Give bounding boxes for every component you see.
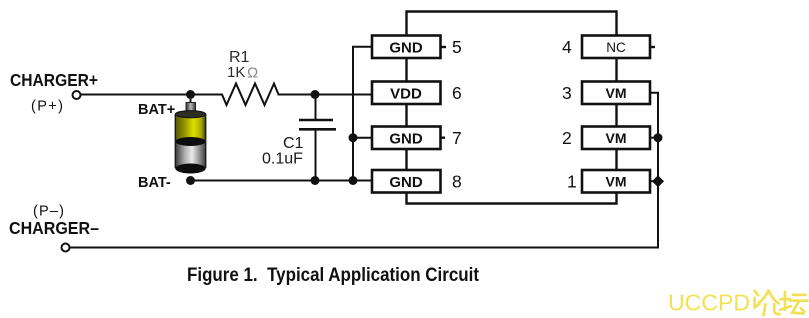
svg-text:VM: VM	[606, 85, 627, 101]
svg-text:6: 6	[452, 83, 462, 103]
pin 8 GND box	[372, 170, 441, 193]
svg-text:GND: GND	[389, 40, 423, 57]
node bus-VM1 junction (diamond)	[652, 175, 664, 187]
svg-text:UCCPD: UCCPD	[668, 290, 750, 316]
wire R1 to VDD	[281, 94, 372, 96]
wire VM2 stub	[650, 137, 658, 139]
node battery bottom junction	[186, 176, 195, 185]
pin 5 GND box	[372, 36, 446, 59]
pin 1 VM box	[582, 170, 650, 193]
wire BAT- to GND8	[191, 180, 373, 182]
wire IC package bottom edge	[407, 193, 617, 204]
svg-text:7: 7	[452, 128, 462, 148]
svg-text:CHARGER–: CHARGER–	[9, 218, 99, 238]
wire IC package top edge	[407, 12, 617, 36]
wire left pin chain stubs	[405, 58, 407, 171]
wire VM right bus	[70, 93, 659, 248]
svg-text:8: 8	[452, 172, 462, 192]
svg-text:VM: VM	[606, 174, 627, 190]
pin 4 NC box	[582, 36, 655, 59]
svg-text:NC: NC	[606, 40, 626, 55]
svg-text:0.1uF: 0.1uF	[262, 151, 303, 168]
svg-text:BAT-: BAT-	[138, 175, 171, 191]
watermark UCCPD forum	[668, 290, 808, 316]
wire right pin chain stubs	[615, 58, 617, 171]
terminal CHARGER+	[73, 91, 81, 99]
capacitor C1	[299, 95, 336, 181]
svg-text:2: 2	[562, 128, 572, 148]
battery BT1	[175, 95, 205, 174]
svg-text:5: 5	[452, 37, 462, 57]
svg-text:GND: GND	[389, 131, 423, 148]
node battery top junction	[186, 90, 195, 99]
svg-text:GND: GND	[389, 174, 423, 191]
terminal CHARGER-	[62, 244, 70, 252]
wire left GND bus	[353, 47, 372, 181]
svg-text:Ω: Ω	[247, 65, 258, 82]
node bus-GND7 junction	[349, 133, 358, 142]
svg-text:VDD: VDD	[390, 86, 422, 103]
svg-text:CHARGER+: CHARGER+	[10, 70, 98, 90]
pin 6 VDD box	[372, 82, 441, 105]
pin 7 GND box	[372, 127, 445, 150]
svg-text:1: 1	[567, 172, 577, 192]
node bus-VM2 junction	[654, 133, 663, 142]
svg-text:1K: 1K	[227, 64, 245, 81]
pin 3 VM box	[582, 82, 650, 105]
node bus-GND8 junction	[349, 176, 358, 185]
node R1/C1/VDD junction	[311, 90, 320, 99]
wire CHARGER+ to R1	[81, 94, 219, 96]
wire GND7 stub	[353, 137, 372, 139]
label 1K ohm value	[227, 64, 258, 82]
wire VM1 stub	[650, 180, 658, 182]
resistor R1	[218, 84, 281, 106]
svg-text:4: 4	[562, 37, 572, 57]
pin 2 VM box	[582, 127, 650, 150]
svg-text:BAT+: BAT+	[138, 102, 175, 118]
node C1 bottom junction	[311, 176, 320, 185]
svg-text:(P+): (P+)	[31, 99, 63, 115]
svg-text:VM: VM	[606, 130, 627, 146]
svg-text:3: 3	[562, 83, 572, 103]
svg-text:C1: C1	[283, 135, 304, 152]
svg-text:Figure 1. Typical Application: Figure 1. Typical Application Circuit	[187, 264, 479, 286]
